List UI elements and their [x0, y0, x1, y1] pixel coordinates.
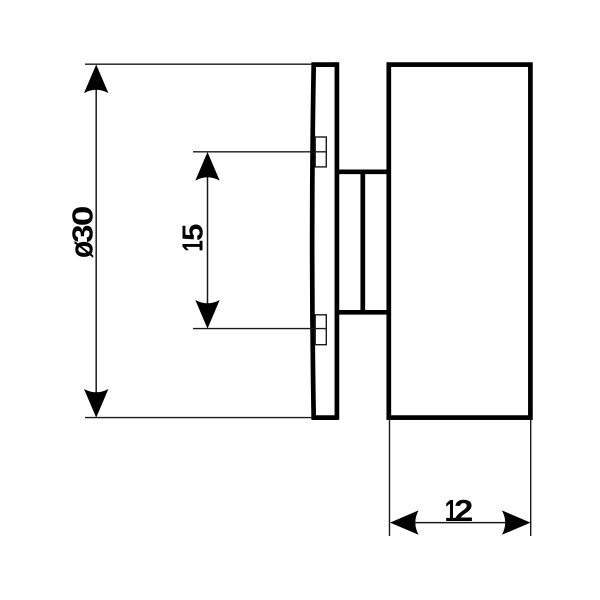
- svg-text:1: 1: [179, 240, 210, 252]
- svg-text:5: 5: [178, 224, 209, 241]
- knob body: [389, 65, 531, 418]
- svg-text:ø: ø: [65, 240, 100, 258]
- svg-text:3: 3: [66, 225, 98, 243]
- rosette plate right edge: [335, 62, 340, 420]
- dim 15 extension line bottom: [193, 328, 326, 330]
- dim ø30 line: [95, 70, 97, 412]
- dim 15 extension line top: [193, 151, 326, 153]
- dim ø30 extension line top: [85, 63, 313, 65]
- dim 12 extension line right: [530, 420, 532, 536]
- dim ø30 arrow down: [84, 389, 108, 418]
- dim ø30 extension line bottom: [85, 417, 313, 419]
- dim ø30 arrow up: [84, 65, 108, 94]
- neck middle vertical: [360, 172, 365, 312]
- dim 12 line: [395, 522, 526, 524]
- neck top line: [337, 169, 389, 174]
- rosette plate (side view, curved face): [312, 65, 337, 418]
- dim 15 arrow down: [195, 300, 219, 329]
- dim 12 arrow right: [502, 510, 531, 534]
- dim 12 arrow left: [390, 510, 419, 534]
- dim 15 line: [207, 157, 209, 324]
- dim 12 extension line left: [389, 420, 391, 536]
- svg-text:2: 2: [454, 493, 473, 528]
- screw hole upper: [315, 137, 326, 167]
- neck bottom line: [337, 310, 389, 315]
- svg-text:0: 0: [67, 206, 99, 227]
- screw hole lower: [315, 315, 326, 345]
- dim 15 arrow up: [195, 152, 219, 181]
